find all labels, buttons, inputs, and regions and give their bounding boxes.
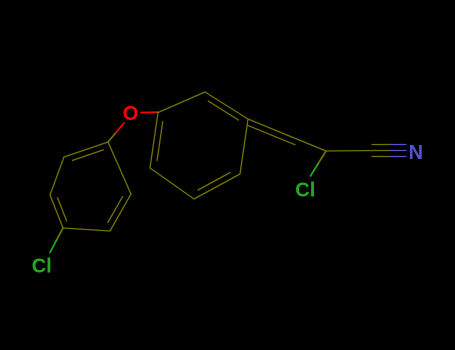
bond C2 to C3 (nitrile carbon) — [326, 150, 375, 153]
bond X to C1 (vinyl CH) — [248, 119, 287, 135]
wire ring edge V5-V6 — [110, 194, 131, 231]
triple bond C3-N upper nitrogen half — [390, 144, 406, 146]
wire inner double bond T-X — [208, 101, 238, 120]
bond V4 to Cl : chlorine half — [50, 240, 57, 252]
bond V1 to O : carbon half — [108, 133, 116, 143]
wire inner double bond LL-A — [157, 122, 163, 161]
triple bond C3-N middle carbon half — [375, 150, 390, 152]
svg-text:O: O — [123, 103, 139, 125]
wire ring edge T-X — [205, 92, 248, 119]
bond O to ring A : carbon part — [157, 111, 158, 113]
wire inner double bond V1-V2 — [73, 150, 104, 161]
svg-text:N: N — [409, 142, 423, 164]
wire ring edge V6-V1 — [108, 142, 131, 194]
svg-text:Cl: Cl — [32, 256, 52, 278]
wire ring edge B-LL — [150, 168, 194, 199]
triple bond C3-N lower carbon half — [372, 156, 390, 158]
bond O to ring A : oxygen part — [141, 111, 157, 113]
wire ring edge X-LR — [240, 119, 248, 174]
benzene ring left (4-chlorophenyl) — [50, 142, 131, 231]
wire inner double bond V5-V6 — [108, 197, 123, 223]
bond C2 to Cl : chlorine half — [311, 164, 319, 177]
benzene ring right (phenylene) — [150, 92, 248, 199]
wire inner double bond V3-V4 — [58, 198, 67, 221]
wire ring edge V3-V4 — [50, 195, 63, 228]
triple bond C3-N lower nitrogen half — [390, 156, 406, 158]
wire ring edge LR-B — [194, 174, 240, 199]
double bond C1=C2 main — [287, 135, 326, 151]
bond V4 to Cl : carbon half — [57, 228, 64, 240]
triple bond C3-N upper carbon half — [372, 144, 390, 146]
wire ring edge V2-V3 — [50, 157, 64, 195]
wire ring edge V4-V5 — [63, 228, 110, 231]
svg-text:Cl: Cl — [295, 179, 315, 201]
triple bond C3-N middle nitrogen half — [390, 150, 406, 152]
bond V1 to O : oxygen half — [116, 123, 124, 133]
wire inner double bond LR-B — [198, 173, 230, 191]
wire ring edge V1-V2 — [64, 142, 108, 157]
double bond C1=C2 inner — [247, 125, 295, 145]
bond C2 to Cl : carbon half — [318, 151, 326, 164]
wire ring edge A-T — [158, 92, 205, 113]
wire ring edge LL-A — [150, 113, 158, 169]
